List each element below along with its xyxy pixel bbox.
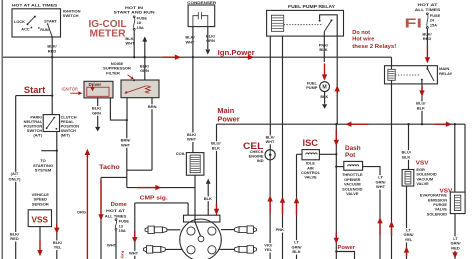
junction filter/driver [126, 119, 128, 121]
fuel pump relay coil [271, 15, 283, 31]
svg-text:VSS: VSS [32, 215, 49, 225]
svg-text:SENSOR: SENSOR [32, 201, 49, 206]
svg-text:FUEL PUMP RELAY: FUEL PUMP RELAY [288, 4, 335, 9]
fuse 18 15A [133, 16, 135, 18]
wire BLK/WHT relay to CEL [269, 36, 271, 150]
svg-text:YEL: YEL [54, 245, 62, 250]
EGR solenoid vacuum valve box [402, 170, 414, 187]
wire BLK/GRN bus to filter [144, 57, 146, 80]
svg-text:WHT: WHT [185, 39, 195, 44]
arrow down into main relay [426, 45, 428, 58]
wire BLU/BLK main power to distributor [216, 124, 218, 215]
arrow main power right [435, 123, 447, 125]
svg-text:WHT: WHT [187, 137, 197, 142]
wire VSS output with down arrow [39, 227, 41, 241]
svg-text:these 2 Relays!: these 2 Relays! [352, 44, 396, 50]
wire filter left pin down [126, 98, 128, 120]
svg-text:VALVE: VALVE [304, 175, 317, 180]
svg-text:ONLY): ONLY) [8, 176, 21, 181]
wire fuse 18 to bus [133, 30, 135, 57]
wire to meter with up arrow [144, 42, 146, 58]
fuel pump relay switch [320, 15, 338, 36]
svg-text:ORG: ORG [77, 210, 86, 215]
svg-text:BLK: BLK [292, 249, 300, 254]
svg-text:Key: Key [121, 251, 126, 259]
svg-text:WHT: WHT [376, 184, 386, 189]
check engine indicator [265, 150, 275, 160]
wire WHT distributor line [135, 202, 188, 204]
wire BLK/RED ignition switch to Ign.Power bus [51, 37, 53, 115]
svg-text:START AND RUN: START AND RUN [114, 10, 155, 15]
svg-text:PNK: PNK [276, 227, 285, 232]
svg-text:RED: RED [451, 245, 460, 250]
arrow Ign.Power flow (under label) [239, 56, 249, 58]
wire BLK/GRN condenser stub with down arrow [207, 27, 209, 49]
spark plug (top left) [167, 229, 181, 231]
fuse 24 15A [427, 13, 429, 15]
wire to evaporative VSV [454, 124, 456, 192]
wire WHT dome fuse down [115, 230, 117, 259]
svg-text:ALL TIMES: ALL TIMES [415, 7, 441, 12]
wire BLK/WHT condenser to bus [192, 27, 194, 58]
arrow Ign.Power flow (left) [163, 56, 176, 58]
svg-text:Driver: Driver [89, 82, 102, 87]
wire BRN/WHT junction down to CMP corner [126, 120, 128, 188]
svg-text:Power: Power [217, 115, 239, 124]
wire BLK/RED fuse to main relay [426, 29, 428, 47]
main relay switch [426, 66, 428, 68]
svg-text:WHT: WHT [125, 41, 135, 46]
spark plug (bottom left) [165, 248, 182, 250]
svg-text:ISC: ISC [303, 138, 319, 148]
wire driver output to junction [110, 98, 126, 120]
svg-text:Hot wire: Hot wire [352, 36, 374, 42]
arrow WHT down [134, 231, 136, 238]
svg-text:Dome: Dome [111, 202, 128, 208]
svg-text:Tacho: Tacho [99, 164, 120, 171]
svg-text:Power: Power [338, 245, 356, 251]
svg-text:BLK: BLK [417, 105, 425, 110]
svg-text:BLK: BLK [319, 47, 327, 52]
wire relay switch feed from main power [336, 36, 338, 124]
svg-text:BRN: BRN [148, 104, 157, 109]
wire BLU/BLK to EGR VSV [408, 124, 410, 169]
arrow main power left [350, 123, 368, 125]
svg-text:YEL: YEL [405, 237, 413, 242]
main relay dashed link [395, 74, 419, 76]
svg-text:METER: METER [90, 28, 127, 39]
wire switch to starting system [56, 132, 58, 259]
ISC idle air control valve box [302, 150, 319, 160]
svg-text:M: M [322, 85, 326, 91]
svg-text:15A: 15A [137, 25, 144, 30]
distributor cap [184, 215, 220, 222]
svg-text:BLK: BLK [320, 95, 328, 99]
svg-text:Start: Start [24, 85, 45, 95]
capacitor symbol inside condenser [193, 16, 198, 27]
svg-text:VSV: VSV [416, 160, 429, 166]
svg-text:RED: RED [48, 48, 57, 53]
main relay box [385, 66, 438, 84]
svg-text:(A/T): (A/T) [33, 133, 43, 138]
fuel pump motor [320, 82, 330, 92]
main relay coil [388, 69, 395, 80]
svg-text:Pot: Pot [345, 152, 356, 159]
wire joining BRN to BRN/WHT [127, 169, 152, 171]
driver box [84, 81, 113, 98]
svg-text:15A: 15A [119, 228, 126, 233]
svg-text:RELAY: RELAY [439, 71, 452, 76]
wire BLK fuel pump ground [324, 92, 326, 104]
svg-text:GRN: GRN [206, 38, 215, 43]
svg-text:RED: RED [423, 36, 432, 41]
wire A/T ONLY down left [15, 96, 17, 259]
svg-text:GRN: GRN [92, 110, 101, 115]
wire ign power bus drop (right) [391, 57, 393, 259]
svg-text:BLK: BLK [204, 196, 212, 201]
svg-text:SYSTEM: SYSTEM [35, 168, 52, 173]
svg-text:SWITCH: SWITCH [63, 13, 79, 18]
svg-text:WHT: WHT [266, 140, 275, 144]
wire tacho branch [101, 176, 127, 178]
ignition switch box [12, 9, 61, 37]
svg-text:FILTER: FILTER [106, 70, 120, 75]
svg-text:START: START [44, 19, 57, 24]
dash pot box (throttle opener vacuum solenoid valve) [344, 161, 363, 170]
wire ISC right pin to dash pot feed [319, 153, 336, 155]
park/neutral position switch box [43, 115, 59, 132]
fuse 13 15A [115, 219, 117, 221]
ground (driver) [95, 127, 100, 132]
arrow CMP sig [137, 187, 156, 189]
svg-text:GRN: GRN [140, 68, 149, 73]
wire BLK stub with up arrow [207, 184, 209, 216]
svg-text:HOT AT ALL TIMES: HOT AT ALL TIMES [12, 3, 58, 8]
wire left drop from bus / scan edge [1, 0, 3, 259]
filter internal diagonal + resistor (red) [126, 86, 146, 93]
evaporative emission purge valve solenoid box [450, 192, 465, 214]
svg-text:Do not: Do not [352, 30, 370, 36]
wire Power branch down [335, 167, 337, 259]
wire main bus right corner down to evap [464, 124, 466, 192]
ground (fuel pump) [322, 104, 327, 109]
svg-text:BLK: BLK [212, 145, 220, 150]
noise suppressor filter box [121, 80, 159, 98]
svg-text:VALVE: VALVE [416, 181, 429, 186]
wire BRN filter right pin down [151, 98, 153, 171]
distributor body [180, 219, 222, 259]
svg-text:ACC: ACC [21, 27, 30, 32]
arrow BLU/BLK down into distributor [216, 204, 218, 210]
wire Main Power bus [217, 123, 466, 125]
svg-text:CMP sig.: CMP sig. [140, 196, 169, 202]
wire driver ground BLK/GRN [97, 98, 99, 127]
svg-text:BLK: BLK [402, 154, 410, 159]
spark plug (bottom right) [219, 248, 234, 250]
wire PNK/BLK relay switch to fuel pump [323, 36, 325, 62]
wire ORG (red) with up arrow [86, 156, 88, 259]
svg-text:SOLENOID: SOLENOID [427, 211, 447, 216]
wire LT GRN/RED evap down [454, 214, 456, 259]
arrow down to fuel pump [324, 63, 326, 75]
svg-text:IGNITOR: IGNITOR [62, 87, 78, 92]
switch lever park/neutral [47, 118, 55, 129]
wire coil to distributor center [194, 175, 196, 222]
wire Ign.Power bus [3, 56, 392, 58]
svg-text:WHT: WHT [129, 250, 139, 255]
junction ignition switch on bus [51, 56, 53, 58]
wire CMP sig to coil line [127, 187, 195, 189]
wire LT GRN/YEL EGR down [406, 186, 408, 259]
wire VIO/YEL CEL down [269, 160, 271, 259]
svg-text:LOCK: LOCK [14, 19, 25, 24]
svg-text:Dash: Dash [345, 145, 361, 152]
wire dash pot right pin LT GRN/WHT down [363, 167, 380, 259]
wire start branch [16, 95, 53, 97]
arrow BLK/YEL down [56, 224, 58, 229]
svg-text:RED: RED [10, 236, 19, 241]
svg-text:IND: IND [257, 158, 264, 163]
svg-text:FI: FI [405, 17, 422, 31]
svg-text:RUN: RUN [40, 27, 49, 32]
svg-text:PUMP: PUMP [306, 85, 318, 90]
svg-text:COIL: COIL [176, 151, 186, 156]
svg-text:15A: 15A [430, 22, 437, 27]
wire BLK/WHT bus to coil [192, 57, 194, 152]
svg-text:WHT: WHT [121, 142, 131, 147]
arrow tacho down [100, 180, 102, 215]
wire dash pot feed from main power [335, 124, 337, 166]
distributor terminals [187, 227, 195, 235]
arrow filter label pointer [128, 75, 132, 78]
wire BLU/BLK main relay output [421, 84, 423, 124]
svg-text:(M/T): (M/T) [61, 133, 71, 138]
wire PNK relay down [282, 36, 284, 259]
wire ISC left pin down [297, 153, 303, 155]
svg-text:VALVE: VALVE [346, 191, 359, 196]
fuel pump relay dashed link [284, 24, 322, 26]
svg-text:WHT: WHT [107, 243, 117, 248]
svg-text:YEL: YEL [264, 247, 272, 252]
